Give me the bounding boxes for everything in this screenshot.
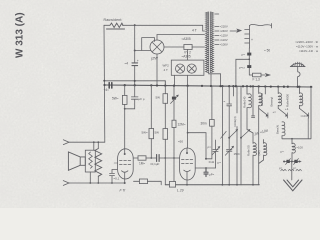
svg-text:Rolle140: Rolle140 <box>242 96 246 108</box>
grid feed x187.6 <box>187 86 189 133</box>
svg-text:ρ≈: ρ≈ <box>208 145 212 149</box>
cap blob 1 <box>247 53 251 56</box>
transformer primary zigzag inside box <box>89 152 93 168</box>
switch arm col258 <box>259 108 268 115</box>
chain x299.4 <box>298 87 300 94</box>
chain x278.2 <box>277 87 279 94</box>
svg-text:≈4: ≈4 <box>125 61 129 65</box>
arrow to antenna <box>266 74 270 77</box>
svg-text:≈220V: ≈220V <box>220 25 228 29</box>
svg-text:WF2: WF2 <box>163 64 170 68</box>
arm col278 <box>278 108 287 115</box>
wire rectifier bottom down to bus <box>156 54 158 86</box>
speaker terminal arrow top <box>63 140 69 145</box>
tube1 cathode <box>122 171 128 179</box>
svg-text:μF ρ: μF ρ <box>139 97 145 101</box>
wire left rail x102 <box>103 25 106 142</box>
v237 with text and cap 1500 <box>236 86 238 113</box>
coupling cap vertical plates <box>157 155 160 162</box>
svg-text:Rolle 50: Rolle 50 <box>246 145 250 156</box>
wires winding bottoms <box>90 172 98 183</box>
tube2 cathode lead <box>186 172 188 185</box>
transformer bottom drops <box>211 74 221 86</box>
anode load resistor 30m x211.9 <box>211 86 213 120</box>
svg-text:≈220V~240V · 3I: ≈220V~240V · 3I <box>295 40 318 44</box>
svg-text:≈110V~130V · w: ≈110V~130V · w <box>296 44 319 48</box>
tube1 bottom lead <box>124 179 126 183</box>
svg-text:5W≈: 5W≈ <box>142 131 149 135</box>
svg-text:F Tr: F Tr <box>120 189 127 193</box>
tube2 envelope <box>180 148 196 180</box>
wire W13 down to lamp box <box>187 50 189 61</box>
tube1 grid lead left <box>114 162 118 164</box>
svg-text:+: + <box>251 38 253 42</box>
v222.4 full <box>221 86 223 185</box>
wire rectifier left loop <box>135 38 155 51</box>
speaker winding outer zigzag <box>95 149 102 177</box>
svg-text:(22): (22) <box>257 150 261 155</box>
svg-text:+1: +1 <box>285 107 289 111</box>
series box on bottom bus <box>169 182 175 188</box>
resistor 1M horizontal <box>138 156 146 160</box>
tube2 grid dashes <box>182 160 193 164</box>
svg-text:Rolle4000: Rolle4000 <box>286 94 290 107</box>
antenna umbrella <box>290 63 305 66</box>
resistor W13 box <box>184 45 192 50</box>
bypass cap blob on x206 <box>204 168 208 177</box>
column x248.5: Rolle140 chain upper <box>246 86 248 94</box>
cap blob 2 <box>247 65 251 68</box>
series electrolytic in bus <box>109 83 112 88</box>
underline of ballast <box>107 28 125 30</box>
transformer bottom tap right <box>209 73 221 74</box>
speaker terminal arrow bottom <box>63 181 69 186</box>
wire fuse run <box>249 74 265 76</box>
main HT bus <box>104 85 312 87</box>
svg-text:4 T: 4 T <box>192 29 197 33</box>
svg-text:Rolle1500: Rolle1500 <box>260 93 264 106</box>
arm col299 <box>299 108 308 115</box>
mains switch curve <box>250 24 272 29</box>
svg-text:≈100V: ≈100V <box>220 43 228 47</box>
node dot (134.7,50.5) <box>134 50 136 52</box>
switch arm A <box>229 130 237 137</box>
anode wire over to x206 <box>188 133 206 159</box>
svg-text:Bew(4): Bew(4) <box>276 125 280 134</box>
svg-text:≈A305: ≈A305 <box>182 55 191 59</box>
svg-text:ρ≈: ρ≈ <box>242 53 246 57</box>
output transformer box <box>85 150 95 172</box>
v229.2 with small cap <box>227 86 232 149</box>
wire box top drop from bus <box>93 142 95 150</box>
short arm far left <box>221 131 227 138</box>
vertical x134.7 top section <box>134 25 136 86</box>
lamp box drops to bus <box>174 75 187 85</box>
ground stem <box>291 162 293 181</box>
right column verticals <box>248 48 250 75</box>
node dot (134.7,24.7) <box>134 24 136 26</box>
tube2 cathode <box>184 170 190 171</box>
speaker cone <box>68 152 85 170</box>
dial lamps box <box>171 60 204 75</box>
transformer core <box>209 12 211 73</box>
svg-text:12M≈: 12M≈ <box>178 123 186 127</box>
svg-text:ρ≈: ρ≈ <box>293 166 297 170</box>
svg-text:μ≈: μ≈ <box>281 150 285 154</box>
screen resistor x151.3 <box>150 85 152 128</box>
bottom return bus <box>165 184 259 186</box>
svg-text:+4≈: +4≈ <box>104 88 110 92</box>
svg-text:+: + <box>137 59 139 63</box>
tube1 envelope <box>118 149 134 179</box>
svg-text:≈125V: ≈125V <box>220 34 228 38</box>
series caps in row <box>286 160 289 163</box>
secondary winding sawtooth <box>211 12 214 73</box>
tube2 output wire right <box>195 167 215 169</box>
svg-text:Bewegl: Bewegl <box>270 97 274 107</box>
svg-text:≈0,1μF: ≈0,1μF <box>150 162 160 166</box>
svg-text:F 1,3: F 1,3 <box>253 77 260 81</box>
coil 100 chain <box>291 139 293 144</box>
ground ticks <box>281 170 302 171</box>
12M chain x174 <box>173 86 175 97</box>
svg-text:±1Ω: ±1Ω <box>209 160 215 164</box>
arrows over caps <box>286 159 299 165</box>
v265.3 short <box>264 87 266 95</box>
svg-text:≈110V~13I · w: ≈110V~13I · w <box>299 49 319 53</box>
antenna stem with loop <box>298 67 300 87</box>
anode resistor 5000 <box>124 85 126 95</box>
svg-text:5W: 5W <box>155 131 160 135</box>
selector arrow <box>230 29 241 32</box>
trimmer x215.5 <box>213 140 218 168</box>
svg-text:30m: 30m <box>201 122 208 126</box>
primary winding sawtooth <box>206 12 209 73</box>
v233.4 short <box>232 86 234 96</box>
wire bus to speaker top <box>69 141 105 143</box>
svg-text:1M≈: 1M≈ <box>139 162 145 166</box>
grid coupling cap on x134.7 <box>125 85 138 109</box>
heater series box left <box>139 179 147 184</box>
svg-text:ρ≈ω: ρ≈ω <box>239 65 245 69</box>
svg-text:μ≈: μ≈ <box>218 161 222 165</box>
svg-text:≈240V: ≈240V <box>220 29 228 33</box>
svg-text:W 313 (A): W 313 (A) <box>14 12 25 58</box>
svg-text:Rauwident:: Rauwident: <box>104 18 123 22</box>
column x258.7 long with chain <box>258 86 260 93</box>
trimmer 1500 <box>227 149 232 184</box>
dial lamp 1 <box>176 64 185 73</box>
dial lamp 2 <box>187 64 196 73</box>
svg-text:≈A305: ≈A305 <box>182 37 191 41</box>
resistor ballast zigzag <box>110 23 123 27</box>
svg-text:5W: 5W <box>156 96 161 100</box>
v241 with arm 2 <box>240 86 242 138</box>
connector y138.8 <box>282 87 311 139</box>
node row y161.5 <box>284 161 302 163</box>
svg-text:4 T: 4 T <box>164 68 168 72</box>
svg-text:Rolle(4): Rolle(4) <box>233 116 237 126</box>
wire rectifier right to W13 box <box>164 46 184 48</box>
svg-text:≈100: ≈100 <box>296 146 303 150</box>
upper rectified rail <box>104 81 165 86</box>
capacitor 4uF on x134.7 <box>132 63 138 66</box>
wire corner into transformer primary <box>203 25 205 31</box>
tube1 grid dashes <box>120 161 131 165</box>
svg-text:≈10: ≈10 <box>301 114 306 118</box>
rectifier tube circle <box>150 40 164 54</box>
wire tube1 anode to right <box>133 157 138 159</box>
svg-text:≈ 50: ≈ 50 <box>264 49 270 53</box>
wire bottom speaker run <box>69 182 125 184</box>
tube2 top dot <box>186 152 188 154</box>
cathode cap near tube1 <box>110 170 118 184</box>
tube1 top dot <box>124 153 126 155</box>
wire top left horizontal <box>104 24 203 26</box>
svg-text:≈110V: ≈110V <box>220 38 228 42</box>
branch to bus <box>236 59 249 86</box>
svg-text:≈0,1: ≈0,1 <box>114 177 120 181</box>
selector contacts column <box>245 26 250 49</box>
svg-text:μF≈: μF≈ <box>209 173 215 177</box>
svg-text:5W≈: 5W≈ <box>112 97 119 101</box>
svg-text:≈50: ≈50 <box>178 140 183 144</box>
transformer taps right <box>215 14 219 45</box>
rectifier electrodes X <box>153 43 162 52</box>
bus junction dots <box>103 80 312 88</box>
fuse F1,3 <box>253 73 262 77</box>
wire rectifier top to transformer <box>157 35 205 41</box>
wire winding top <box>97 142 99 148</box>
svg-text:+≈: +≈ <box>273 110 277 114</box>
ground arrow double chevron <box>284 180 302 191</box>
rail resistor chain x165.3 <box>164 86 166 94</box>
svg-text:L 29: L 29 <box>177 189 184 193</box>
